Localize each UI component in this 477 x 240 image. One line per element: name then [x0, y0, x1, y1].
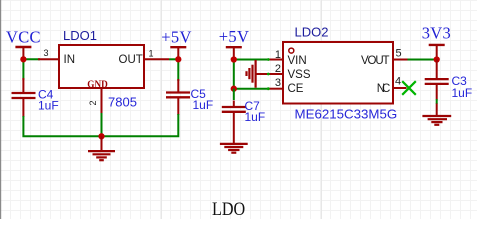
wire pin 5 of LDO2 to 3V3 node [408, 59, 437, 61]
wire +5V node to pin 1 of LDO2 [234, 59, 269, 61]
pin 2 VSS [268, 73, 283, 75]
svg-text:LDO2: LDO2 [295, 25, 329, 40]
wire VCC node down to C4 [22, 59, 24, 80]
no-ERC cross on pin 4 [402, 81, 416, 95]
svg-text:LDO: LDO [212, 198, 245, 219]
svg-text:1uF: 1uF [452, 86, 473, 100]
wire CE node to pin 3 of LDO2 [234, 88, 269, 90]
wire CE node down to C7 [233, 89, 235, 100]
svg-text:CE: CE [288, 83, 304, 95]
svg-text:GND: GND [87, 78, 108, 90]
power port +5V (left) [161, 27, 191, 59]
ground symbol (C3) [422, 104, 451, 125]
wire +5V node down to CE node [233, 60, 235, 89]
ground symbol (C7) [220, 144, 248, 153]
wire C4 to ground rail [23, 116, 102, 136]
svg-text:3V3: 3V3 [422, 24, 451, 43]
svg-text:2: 2 [88, 100, 98, 105]
svg-text:VSS: VSS [288, 69, 311, 81]
svg-text:LDO1: LDO1 [63, 28, 97, 43]
left window border [0, 0, 1, 219]
ground symbol (LDO1 rail) [88, 136, 115, 160]
pin 2 GND [101, 88, 103, 113]
junction at CE node [231, 86, 237, 92]
wire VCC node to pin 3 of LDO1 [23, 58, 40, 60]
junction at 3V3 node [434, 56, 440, 62]
pin 5 VOUT [393, 59, 408, 61]
power port VCC [6, 27, 41, 59]
capacitor C5 [166, 79, 213, 115]
svg-text:ME6215C33M5G: ME6215C33M5G [295, 107, 398, 122]
wire pin 2 of LDO1 to ground rail [101, 113, 103, 136]
body [283, 42, 393, 104]
wire C5 to ground rail [101, 114, 178, 136]
regulator LDO1 [38, 28, 169, 113]
pin 3 CE [268, 88, 283, 90]
svg-text:3: 3 [44, 48, 49, 58]
svg-text:VOUT: VOUT [361, 55, 390, 67]
svg-text:1: 1 [275, 49, 281, 61]
power port 3V3 [422, 24, 451, 60]
body [59, 45, 144, 88]
svg-text:4: 4 [395, 76, 401, 88]
svg-text:+5V: +5V [219, 27, 249, 46]
junction at +5V node [231, 56, 237, 62]
pin 4 NC [393, 87, 407, 89]
junction at ground rail [98, 133, 104, 139]
regulator LDO2 [267, 25, 408, 122]
junction at VCC node [20, 56, 26, 62]
svg-text:+5V: +5V [161, 27, 191, 46]
junction at +5V node [175, 56, 181, 62]
wire C3 to ground [436, 99, 438, 104]
polarity mark circle [289, 48, 294, 53]
wire +5V node down to C5 [177, 59, 179, 81]
capacitor C7 [222, 99, 265, 144]
power port +5V (right) [219, 27, 249, 60]
svg-text:1uF: 1uF [245, 110, 266, 124]
svg-text:1uF: 1uF [193, 98, 214, 112]
svg-text:7805: 7805 [108, 95, 137, 110]
pin 1 VIN [268, 59, 283, 61]
wire pin 1 of LDO1 to +5V node [169, 58, 178, 60]
svg-text:VCC: VCC [6, 27, 41, 46]
svg-text:3: 3 [275, 77, 281, 89]
capacitor C4 [12, 78, 59, 117]
svg-text:NC: NC [377, 83, 391, 95]
svg-text:VIN: VIN [288, 55, 307, 67]
pin 1 OUT [144, 58, 169, 60]
svg-text:IN: IN [64, 54, 76, 66]
svg-text:5: 5 [396, 48, 402, 60]
svg-text:OUT: OUT [119, 54, 143, 66]
svg-text:2: 2 [275, 63, 281, 75]
svg-text:1: 1 [149, 49, 154, 59]
svg-text:1uF: 1uF [38, 99, 59, 113]
pin 3 IN [38, 58, 59, 60]
capacitor C3 [425, 60, 472, 101]
ground symbol (VSS, rotated left) [247, 60, 269, 88]
